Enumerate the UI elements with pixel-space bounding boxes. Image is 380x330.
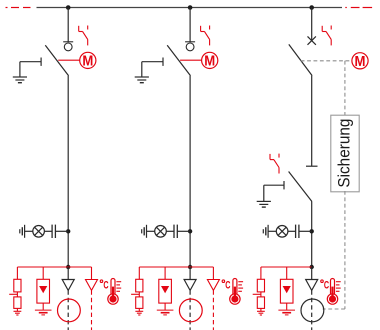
cable (dashed, option) (212, 290, 214, 330)
ground (135, 311, 143, 315)
mechanical linkage (dashed) down to fuse (344, 61, 346, 115)
wire (311, 267, 313, 279)
capacitor C1 (52, 225, 55, 238)
wire: feeder 3 drop (311, 8, 313, 41)
switch-disconnector Q1 blade (open) (45, 45, 68, 76)
fuse fixed contact bar (306, 165, 318, 167)
switch pivot circle (186, 43, 194, 51)
busbar node 2 (188, 5, 193, 10)
svg-text:C: C (324, 279, 330, 291)
wire (56, 230, 69, 232)
mechanical linkage (dashed) to motor (301, 60, 352, 62)
ground (257, 201, 271, 207)
ground (rotated) (142, 225, 147, 238)
wire (166, 230, 174, 232)
wire (67, 267, 69, 279)
ground (rotated) (263, 225, 268, 238)
busbar node 3 (309, 5, 314, 10)
wire (91, 267, 93, 279)
busbar (dashed continuation right) (345, 7, 372, 9)
wire (178, 230, 191, 232)
mechanical linkage (dashed) to transformer (323, 308, 345, 310)
auxiliary contact S1 (79, 26, 88, 46)
indicator lamp H1 (33, 226, 45, 238)
temperature label (222, 279, 231, 291)
auxiliary contact S3 (322, 26, 331, 46)
wire (288, 230, 296, 232)
capacitor C2 (174, 225, 177, 238)
ground (14, 311, 22, 315)
switch pivot circle (64, 43, 72, 51)
ground (278, 310, 295, 315)
motor drive M2 (202, 52, 218, 69)
mechanical linkage (dashed) below fuse (344, 191, 346, 309)
voltage divider resistor R3b (257, 297, 264, 309)
voltage divider resistor R1a (14, 279, 21, 292)
temperature label (321, 279, 330, 291)
wire (42, 267, 44, 286)
wire (147, 230, 155, 232)
thermometer sensor 2 (230, 279, 243, 305)
svg-text:M: M (355, 52, 366, 69)
wire (212, 267, 214, 279)
svg-text:C: C (225, 279, 231, 291)
wire (16, 292, 18, 297)
surge arrester F3 (280, 279, 293, 303)
cable termination (option) (86, 280, 98, 291)
wire (138, 308, 140, 311)
junction node 3 (voltage indicator tap) (310, 229, 314, 233)
sensor bus wire (139, 266, 213, 268)
sensor bus wire (17, 266, 91, 268)
ground (135, 77, 149, 83)
wire: feeder 1 main (67, 76, 69, 267)
auxiliary contact S3b (270, 154, 279, 174)
motor drive M3 (352, 52, 368, 69)
wire (260, 292, 262, 297)
voltage divider resistor R2b (136, 297, 143, 309)
wire (16, 308, 18, 311)
wire (260, 308, 262, 311)
wire (299, 230, 312, 232)
motor control link (180, 59, 202, 61)
ground (157, 310, 174, 315)
capacitor C3 (296, 225, 299, 238)
voltage divider resistor R2a (136, 279, 143, 292)
earthing switch contact Q2E (142, 58, 163, 78)
voltage divider resistor R1b (14, 297, 21, 309)
cable (dashed, option) (91, 290, 93, 330)
earthing switch contact Q1E (20, 58, 41, 78)
wire (164, 303, 166, 310)
wire (42, 303, 44, 310)
auxiliary contact S2 (201, 26, 210, 46)
wire (16, 267, 18, 279)
ground (13, 77, 27, 83)
switch-disconnector Q3 blade (open) (289, 44, 312, 75)
busbar (dashed continuation left) (6, 7, 31, 9)
wire (44, 230, 52, 232)
sensor bus wire (261, 266, 312, 268)
cable termination T3 (306, 280, 318, 291)
svg-text:M: M (204, 52, 215, 69)
fixed contact bar (185, 41, 195, 43)
wire (25, 230, 33, 232)
cable termination T2 (184, 280, 196, 291)
busbar node 1 (66, 5, 71, 10)
wire: feeder 1 drop (67, 8, 69, 42)
cable (dashed) (189, 290, 191, 330)
wire (189, 267, 191, 279)
measuring tap wire (131, 293, 139, 295)
fixed contact bar (63, 41, 73, 43)
fuse F3 box (331, 115, 359, 192)
surge arrester F2 (159, 279, 172, 303)
junction node (cable compartment) (66, 265, 70, 269)
voltage transformer P3 (301, 299, 324, 322)
cable termination T1 (62, 280, 74, 291)
wire (311, 76, 313, 167)
junction node 2 (voltage indicator tap) (188, 229, 192, 233)
wire (138, 292, 140, 297)
indicator lamp H2 (155, 226, 167, 238)
wire (164, 267, 166, 286)
surge arrester F1 (37, 279, 50, 303)
earthing switch contact Q3E (264, 181, 284, 201)
junction node (cable compartment) (188, 265, 192, 269)
motor drive M1 (80, 52, 96, 69)
load-break switch Q3b blade (open) (289, 172, 312, 202)
thermometer sensor 3 (327, 279, 340, 305)
indicator lamp H3 (276, 226, 288, 238)
junction node 1 (voltage indicator tap) (66, 229, 70, 233)
cable termination (option) (207, 280, 219, 291)
svg-text:M: M (82, 52, 93, 69)
cable (dashed) (311, 290, 313, 330)
ground (rotated) (20, 225, 25, 238)
ground (257, 311, 265, 315)
motor control link (58, 59, 79, 61)
svg-text:C: C (103, 279, 109, 291)
wire: feeder 2 main (189, 76, 191, 267)
wire (286, 267, 288, 286)
junction node (cable compartment) (310, 265, 314, 269)
svg-text:Sicherung: Sicherung (335, 119, 353, 188)
wire (260, 267, 262, 279)
thermometer sensor 1 (108, 279, 121, 305)
wire (268, 230, 276, 232)
measuring tap wire (253, 293, 261, 295)
wire (286, 303, 288, 310)
switch-disconnector Q2 blade (open) (167, 45, 190, 76)
cable (dashed) (67, 290, 69, 330)
wire (138, 267, 140, 279)
voltage transformer P2 (179, 299, 202, 322)
temperature label (100, 279, 109, 291)
voltage divider resistor R3a (257, 279, 264, 292)
measuring tap wire (9, 293, 17, 295)
busbar (37, 7, 343, 9)
voltage transformer P1 (58, 299, 81, 322)
circuit breaker Q3 (cross) (308, 36, 316, 44)
ground (35, 310, 52, 315)
wire (311, 202, 313, 268)
wire: feeder 2 drop (189, 8, 191, 42)
